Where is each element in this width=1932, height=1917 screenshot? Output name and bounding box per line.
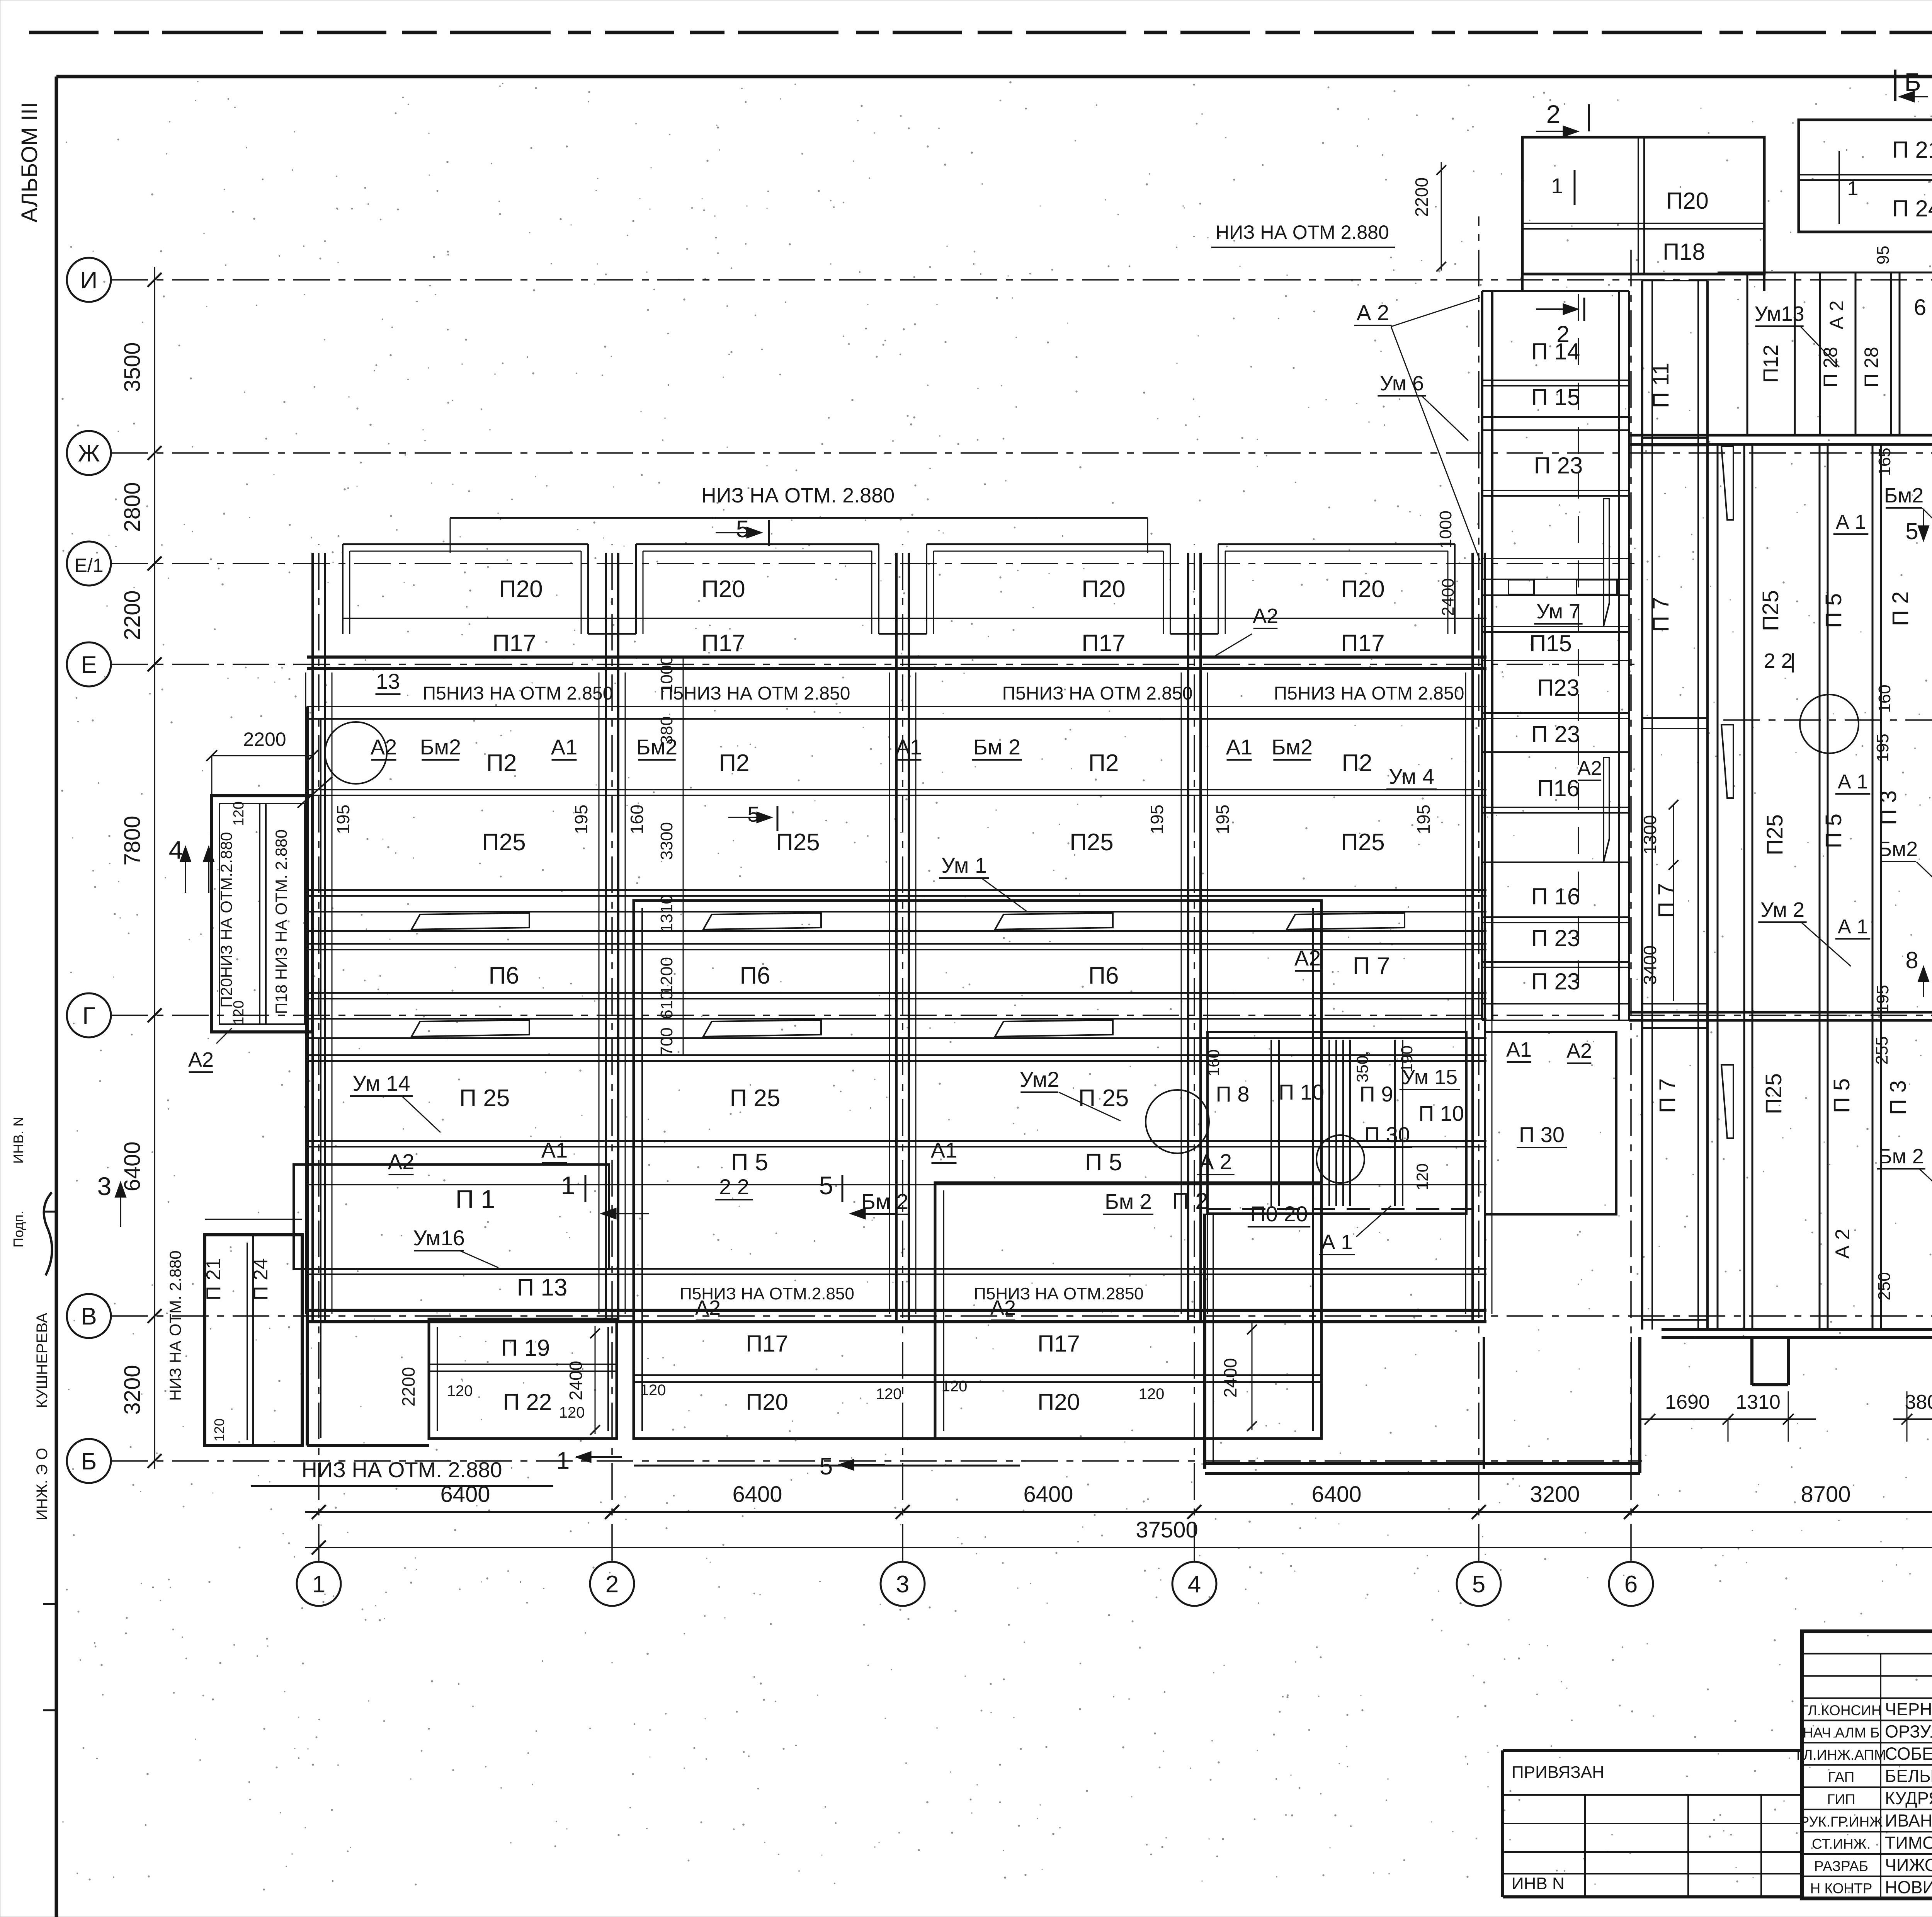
svg-text:А 2: А 2 — [1832, 1229, 1854, 1259]
svg-text:1: 1 — [1551, 174, 1563, 198]
svg-text:195: 195 — [1213, 805, 1233, 834]
svg-text:П2: П2 — [1342, 750, 1372, 776]
svg-text:Ум2: Ум2 — [1020, 1067, 1060, 1091]
svg-text:160: 160 — [1204, 1049, 1223, 1076]
svg-text:П 24: П 24 — [250, 1258, 272, 1301]
svg-text:П20: П20 — [1037, 1389, 1080, 1415]
svg-text:6: 6 — [1624, 1571, 1638, 1598]
svg-text:П 7: П 7 — [1654, 883, 1679, 918]
svg-text:ГЛ.КОНСИН: ГЛ.КОНСИН — [1801, 1702, 1881, 1718]
svg-text:2200: 2200 — [398, 1367, 418, 1406]
svg-text:П25: П25 — [1761, 1073, 1786, 1114]
svg-text:П 25: П 25 — [1078, 1085, 1129, 1112]
svg-text:П 28: П 28 — [1820, 347, 1841, 387]
svg-text:А1: А1 — [1226, 735, 1253, 759]
svg-text:П 28: П 28 — [1861, 347, 1882, 387]
svg-text:П 1: П 1 — [456, 1185, 495, 1213]
svg-text:А 1: А 1 — [1838, 771, 1868, 793]
svg-text:П 16: П 16 — [1531, 884, 1580, 909]
svg-text:П 3: П 3 — [1886, 1080, 1911, 1115]
svg-text:П20: П20 — [499, 576, 543, 603]
svg-text:Бм 2: Бм 2 — [1105, 1189, 1152, 1214]
svg-text:ИВАНОВА: ИВАНОВА — [1885, 1811, 1932, 1830]
svg-text:НИЗ НА ОТМ. 2.880: НИЗ НА ОТМ. 2.880 — [301, 1457, 502, 1482]
svg-text:А 2: А 2 — [1199, 1149, 1232, 1174]
svg-text:П 23: П 23 — [1531, 969, 1580, 994]
svg-text:П6: П6 — [488, 962, 519, 989]
svg-text:2800: 2800 — [120, 482, 145, 532]
svg-text:П 15: П 15 — [1531, 384, 1580, 410]
svg-text:П17: П17 — [492, 630, 536, 657]
svg-text:2200: 2200 — [120, 590, 145, 640]
svg-text:П20: П20 — [746, 1389, 788, 1415]
svg-text:П17: П17 — [1341, 630, 1385, 657]
svg-text:П 5: П 5 — [1821, 814, 1846, 848]
svg-text:П 25: П 25 — [730, 1085, 781, 1112]
svg-text:195: 195 — [1147, 805, 1167, 834]
svg-text:П5НИЗ НА ОТМ 2.850: П5НИЗ НА ОТМ 2.850 — [660, 683, 850, 704]
svg-text:255: 255 — [1872, 1036, 1891, 1064]
svg-text:А 2: А 2 — [1357, 300, 1389, 325]
svg-text:380: 380 — [1905, 1391, 1932, 1413]
svg-text:А 1: А 1 — [1321, 1231, 1352, 1254]
svg-text:Бм 2: Бм 2 — [1878, 1145, 1924, 1168]
svg-text:195: 195 — [333, 805, 353, 834]
svg-text:3: 3 — [97, 1172, 112, 1200]
svg-text:Ум 6: Ум 6 — [1380, 372, 1424, 395]
svg-text:ИНВ. N: ИНВ. N — [10, 1117, 26, 1164]
svg-text:Ум 1: Ум 1 — [941, 853, 987, 877]
svg-text:Бм2: Бм2 — [1878, 838, 1918, 861]
svg-text:НИЗ НА ОТМ 2.880: НИЗ НА ОТМ 2.880 — [1215, 221, 1389, 243]
svg-text:П20НИЗ НА ОТМ.2.880: П20НИЗ НА ОТМ.2.880 — [217, 832, 235, 1008]
svg-text:380: 380 — [657, 716, 676, 744]
svg-text:А 2: А 2 — [1826, 300, 1847, 329]
svg-text:1690: 1690 — [1665, 1391, 1710, 1413]
svg-text:120: 120 — [231, 1000, 247, 1025]
svg-text:П5НИЗ НА ОТМ 2.850: П5НИЗ НА ОТМ 2.850 — [1274, 683, 1464, 704]
svg-text:Г: Г — [82, 1003, 95, 1029]
svg-text:П 14: П 14 — [1531, 339, 1580, 364]
svg-text:Б: Б — [81, 1448, 97, 1475]
svg-text:6400: 6400 — [732, 1482, 782, 1507]
svg-text:П 23: П 23 — [1534, 453, 1583, 478]
svg-text:П25: П25 — [1758, 590, 1783, 631]
svg-text:Ум16: Ум16 — [413, 1226, 465, 1250]
svg-text:П20: П20 — [701, 576, 745, 603]
svg-text:П17: П17 — [1082, 630, 1126, 657]
svg-text:95: 95 — [1874, 246, 1893, 265]
svg-text:5: 5 — [1472, 1571, 1485, 1598]
svg-text:П 21: П 21 — [1892, 137, 1932, 163]
svg-text:120: 120 — [1139, 1386, 1165, 1403]
svg-text:8: 8 — [1905, 947, 1918, 973]
svg-text:1200: 1200 — [657, 957, 676, 995]
svg-text:ЧИЖОВ: ЧИЖОВ — [1885, 1855, 1932, 1875]
svg-text:120: 120 — [211, 1418, 227, 1442]
svg-text:Ум 2: Ум 2 — [1760, 898, 1804, 921]
svg-text:1: 1 — [556, 1447, 570, 1474]
svg-text:П2: П2 — [719, 750, 749, 776]
svg-text:А 1: А 1 — [1838, 916, 1868, 938]
svg-text:3400: 3400 — [1640, 945, 1660, 985]
svg-text:П17: П17 — [746, 1331, 788, 1357]
svg-text:1: 1 — [312, 1571, 325, 1598]
svg-text:П 9: П 9 — [1360, 1082, 1393, 1106]
svg-text:610: 610 — [657, 991, 676, 1019]
svg-text:2 2: 2 2 — [719, 1175, 749, 1199]
svg-text:П25: П25 — [1762, 814, 1787, 855]
svg-text:НАЧ АЛМ Б: НАЧ АЛМ Б — [1803, 1725, 1880, 1740]
svg-text:4: 4 — [1188, 1571, 1201, 1598]
svg-text:5: 5 — [819, 1171, 833, 1200]
svg-text:П 11: П 11 — [1648, 363, 1673, 408]
svg-text:П5НИЗ НА ОТМ 2.850: П5НИЗ НА ОТМ 2.850 — [1002, 683, 1193, 704]
svg-text:П 7: П 7 — [1655, 1078, 1680, 1113]
svg-text:П 7: П 7 — [1353, 953, 1390, 979]
svg-text:190: 190 — [1398, 1045, 1416, 1073]
svg-text:6400: 6400 — [120, 1141, 145, 1191]
svg-text:П17: П17 — [701, 630, 745, 657]
svg-text:2200: 2200 — [243, 729, 286, 750]
svg-text:П5НИЗ НА ОТМ 2.850: П5НИЗ НА ОТМ 2.850 — [423, 683, 613, 704]
svg-text:П 25: П 25 — [459, 1085, 510, 1112]
svg-text:П 30: П 30 — [1519, 1122, 1565, 1147]
svg-text:ПРИВЯЗАН: ПРИВЯЗАН — [1512, 1763, 1604, 1782]
svg-text:13: 13 — [376, 669, 400, 693]
svg-text:РУК.ГР.ИНЖ: РУК.ГР.ИНЖ — [1800, 1814, 1883, 1830]
svg-text:6400: 6400 — [1311, 1482, 1361, 1507]
svg-text:П6: П6 — [1088, 962, 1119, 989]
svg-text:2400: 2400 — [1439, 578, 1458, 616]
svg-text:А1: А1 — [931, 1138, 957, 1162]
svg-text:5: 5 — [1905, 518, 1918, 544]
svg-text:Бм2: Бм2 — [420, 735, 461, 759]
svg-text:120: 120 — [876, 1386, 902, 1403]
svg-text:3: 3 — [896, 1571, 909, 1598]
svg-text:П23: П23 — [1537, 675, 1580, 701]
svg-text:160: 160 — [1875, 684, 1894, 713]
svg-text:П17: П17 — [1037, 1331, 1080, 1357]
svg-text:ОРЗУЛ: ОРЗУЛ — [1885, 1721, 1932, 1741]
svg-text:2400: 2400 — [1220, 1358, 1240, 1398]
svg-text:П2: П2 — [1088, 750, 1119, 776]
svg-text:КУДРЯВЦЕВА: КУДРЯВЦЕВА — [1885, 1788, 1932, 1808]
svg-text:П 2: П 2 — [1172, 1188, 1208, 1214]
svg-text:П 3: П 3 — [1876, 790, 1901, 825]
svg-text:Ум 14: Ум 14 — [352, 1071, 410, 1095]
svg-text:Бм 2: Бм 2 — [861, 1189, 908, 1214]
svg-text:П18 НИЗ НА ОТМ. 2.880: П18 НИЗ НА ОТМ. 2.880 — [272, 829, 290, 1014]
svg-text:П2: П2 — [486, 750, 517, 776]
svg-text:1000: 1000 — [1436, 511, 1455, 548]
svg-text:Ж: Ж — [78, 440, 100, 467]
svg-text:2400: 2400 — [566, 1361, 586, 1400]
svg-text:3500: 3500 — [120, 342, 145, 392]
svg-text:П 10: П 10 — [1279, 1080, 1324, 1104]
svg-text:Бм 2: Бм 2 — [973, 735, 1020, 759]
svg-text:195: 195 — [571, 805, 591, 834]
svg-text:2: 2 — [605, 1571, 619, 1598]
svg-text:П 24: П 24 — [1892, 196, 1932, 221]
svg-text:А2: А2 — [1253, 604, 1278, 628]
svg-text:3200: 3200 — [1530, 1482, 1580, 1507]
svg-text:120: 120 — [1413, 1163, 1431, 1190]
svg-text:37500: 37500 — [1136, 1517, 1198, 1542]
svg-text:П25: П25 — [776, 829, 820, 856]
svg-text:6400: 6400 — [1023, 1482, 1073, 1507]
svg-text:П20: П20 — [1666, 188, 1709, 214]
svg-text:СТ.ИНЖ.: СТ.ИНЖ. — [1812, 1836, 1871, 1852]
svg-text:СОБЕННИКОВ: СОБЕННИКОВ — [1885, 1744, 1932, 1764]
svg-text:А2: А2 — [990, 1296, 1016, 1319]
svg-text:1000: 1000 — [657, 655, 676, 693]
svg-text:Е: Е — [81, 652, 97, 678]
svg-text:195: 195 — [1413, 805, 1434, 834]
svg-text:А1: А1 — [1506, 1038, 1532, 1061]
svg-text:Подп.: Подп. — [10, 1210, 26, 1248]
svg-text:А1: А1 — [551, 735, 578, 759]
svg-text:П12: П12 — [1759, 345, 1782, 383]
svg-text:П 5: П 5 — [1829, 1078, 1854, 1113]
svg-text:3200: 3200 — [120, 1365, 145, 1415]
svg-text:6: 6 — [1914, 295, 1926, 320]
svg-text:120: 120 — [942, 1378, 968, 1395]
svg-text:П 7: П 7 — [1648, 597, 1673, 632]
svg-text:П 10: П 10 — [1418, 1101, 1464, 1125]
svg-text:В: В — [81, 1303, 97, 1330]
svg-text:П16: П16 — [1537, 775, 1580, 801]
svg-text:БЕЛЬМАН: БЕЛЬМАН — [1885, 1766, 1932, 1786]
svg-text:120: 120 — [559, 1404, 585, 1421]
svg-text:160: 160 — [627, 805, 647, 834]
svg-text:120: 120 — [447, 1382, 473, 1399]
svg-text:РАЗРАБ: РАЗРАБ — [1814, 1858, 1868, 1874]
svg-text:Бм2: Бм2 — [1272, 735, 1313, 759]
svg-text:П 19: П 19 — [501, 1335, 550, 1361]
svg-text:НИЗ НА ОТМ. 2.880: НИЗ НА ОТМ. 2.880 — [701, 484, 895, 507]
svg-text:П 30: П 30 — [1364, 1122, 1410, 1147]
svg-text:700: 700 — [657, 1027, 676, 1056]
svg-text:ГИП: ГИП — [1827, 1791, 1855, 1807]
svg-text:А1: А1 — [896, 735, 922, 759]
svg-text:АЛЬБОМ III: АЛЬБОМ III — [17, 102, 42, 222]
svg-text:1300: 1300 — [1640, 815, 1660, 855]
svg-text:П 23: П 23 — [1531, 925, 1580, 951]
svg-text:ИНВ N: ИНВ N — [1512, 1874, 1565, 1893]
svg-text:П20: П20 — [1082, 576, 1126, 603]
svg-text:П6: П6 — [740, 962, 770, 989]
svg-text:2: 2 — [1546, 100, 1561, 128]
svg-text:П 13: П 13 — [517, 1274, 568, 1301]
svg-text:Н КОНТР: Н КОНТР — [1810, 1881, 1872, 1897]
svg-text:НОВИКОВА: НОВИКОВА — [1885, 1878, 1932, 1897]
svg-text:П 2: П 2 — [1888, 591, 1913, 626]
svg-text:КУШНЕРЕВА: КУШНЕРЕВА — [34, 1313, 51, 1408]
svg-text:7800: 7800 — [120, 815, 145, 865]
svg-text:П18: П18 — [1663, 239, 1705, 265]
svg-text:Ум13: Ум13 — [1754, 302, 1804, 325]
svg-text:ГЛ.ИНЖ.АПМ: ГЛ.ИНЖ.АПМ — [1796, 1747, 1886, 1763]
svg-text:П25: П25 — [1341, 829, 1385, 856]
svg-text:195: 195 — [1873, 734, 1892, 762]
svg-text:П 8: П 8 — [1216, 1082, 1250, 1106]
svg-text:1310: 1310 — [1736, 1391, 1781, 1413]
svg-text:А 1: А 1 — [1836, 511, 1866, 533]
svg-text:А2: А2 — [1294, 946, 1321, 970]
svg-text:НИЗ НА ОТМ. 2.880: НИЗ НА ОТМ. 2.880 — [166, 1250, 184, 1401]
svg-text:1: 1 — [561, 1171, 575, 1200]
svg-text:П 22: П 22 — [503, 1389, 552, 1415]
svg-text:А2: А2 — [188, 1048, 214, 1071]
svg-text:Е/1: Е/1 — [74, 555, 103, 576]
svg-text:Бм2: Бм2 — [1884, 484, 1924, 507]
svg-text:П 5: П 5 — [1085, 1149, 1122, 1176]
svg-text:195: 195 — [1873, 985, 1892, 1013]
svg-text:250: 250 — [1875, 1272, 1894, 1300]
svg-text:2200: 2200 — [1412, 177, 1432, 217]
svg-text:П 5: П 5 — [1821, 593, 1846, 628]
svg-text:П15: П15 — [1529, 630, 1572, 656]
svg-text:1: 1 — [1847, 177, 1859, 200]
svg-text:И: И — [80, 267, 98, 294]
svg-text:ЧЕРНОВ: ЧЕРНОВ — [1885, 1699, 1932, 1719]
svg-text:2 2: 2 2 — [1764, 649, 1793, 672]
svg-text:ИНЖ. Э О: ИНЖ. Э О — [34, 1448, 51, 1520]
svg-text:ТИМОХИНА: ТИМОХИНА — [1885, 1833, 1932, 1852]
svg-text:165: 165 — [1875, 448, 1894, 476]
svg-text:120: 120 — [231, 801, 247, 826]
svg-text:А2: А2 — [388, 1149, 415, 1174]
svg-text:П 27: П 27 — [1928, 327, 1932, 368]
svg-text:3300: 3300 — [657, 822, 676, 860]
svg-text:350,: 350, — [1353, 1051, 1371, 1083]
svg-text:А1: А1 — [541, 1138, 568, 1162]
svg-text:П 5: П 5 — [731, 1149, 768, 1176]
svg-text:А2: А2 — [1566, 1039, 1592, 1062]
svg-text:8700: 8700 — [1801, 1482, 1850, 1507]
svg-text:2: 2 — [1556, 321, 1569, 347]
svg-text:П20: П20 — [1341, 576, 1385, 603]
svg-text:А2: А2 — [695, 1296, 721, 1319]
svg-text:А2: А2 — [1577, 757, 1602, 780]
svg-text:Ум 7: Ум 7 — [1536, 600, 1580, 623]
svg-text:П25: П25 — [482, 829, 526, 856]
svg-text:Ум 4: Ум 4 — [1389, 764, 1434, 788]
svg-text:П25: П25 — [1070, 829, 1114, 856]
svg-text:П 21: П 21 — [202, 1258, 225, 1301]
svg-text:ГАП: ГАП — [1828, 1769, 1854, 1785]
